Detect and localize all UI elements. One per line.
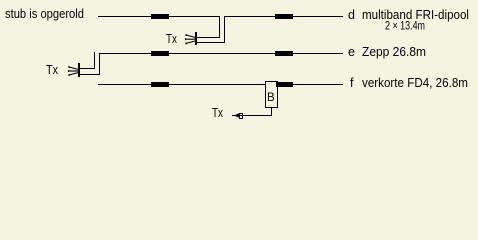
antenna d: right loading coil / trap	[275, 14, 293, 19]
antenna e: radiator wire	[99, 53, 343, 54]
svg-text:Tx: Tx	[212, 106, 224, 120]
svg-text:e: e	[348, 45, 355, 59]
antenna d: Tx connector bar	[195, 32, 197, 45]
antenna d: feedline left conductor vertical	[219, 16, 220, 37]
antenna f: left loading coil / trap	[151, 82, 169, 87]
antenna e: feedline upper horizontal wire	[79, 68, 95, 69]
antenna e: right loading coil / trap	[275, 51, 293, 56]
antenna e: open stub conductor vertical	[94, 52, 95, 68]
antenna f: coax drop wire from balun	[271, 108, 272, 115]
svg-text:verkorte FD4, 26.8m: verkorte FD4, 26.8m	[362, 76, 468, 90]
antenna d: Tx connector prongs	[186, 34, 196, 44]
antenna e: feedline lower horizontal wire	[79, 74, 100, 75]
antenna f: coax plug bracket	[239, 113, 243, 119]
antenna d: right dipole leg wire	[224, 16, 343, 17]
svg-text:d: d	[348, 8, 355, 22]
antenna e: left loading coil / trap	[151, 51, 169, 56]
antenna e: fed conductor vertical	[99, 53, 100, 74]
svg-text:Zepp 26.8m: Zepp 26.8m	[362, 45, 426, 59]
svg-text:f: f	[350, 76, 354, 90]
antenna d: feedline upper horizontal wire	[196, 37, 220, 38]
antenna e: Tx connector prongs	[69, 66, 79, 76]
antenna f: radiator wire left of balun	[98, 84, 265, 85]
antenna d: left dipole leg wire	[98, 16, 219, 17]
antenna d: feedline right conductor vertical	[224, 16, 225, 42]
svg-text:Tx: Tx	[46, 63, 59, 77]
svg-text:stub is opgerold: stub is opgerold	[5, 7, 84, 21]
balun B box	[265, 81, 278, 108]
antenna d: feedline lower horizontal wire	[196, 42, 225, 43]
antenna d: left loading coil / trap	[151, 14, 169, 19]
antenna f: coax horizontal wire	[232, 115, 272, 116]
svg-text:2 × 13.4m: 2 × 13.4m	[385, 21, 425, 33]
svg-text:B: B	[267, 92, 275, 104]
antenna f: coax plug arrowhead	[234, 113, 241, 118]
antenna f: right loading coil / trap	[276, 82, 293, 87]
svg-text:Tx: Tx	[166, 32, 178, 46]
antenna f: radiator wire right of balun	[292, 84, 343, 85]
antenna e: Tx connector bar	[78, 63, 80, 77]
